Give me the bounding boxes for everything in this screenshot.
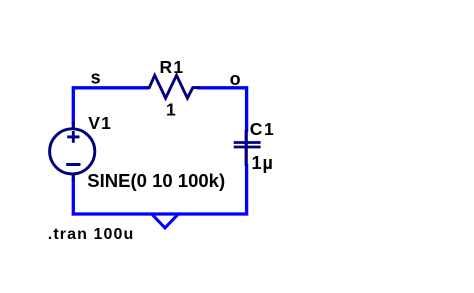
voltage source V1 [50,122,95,181]
svg-text:1µ: 1µ [252,153,274,173]
svg-text:.tran 100u: .tran 100u [48,226,135,243]
svg-text:R1: R1 [160,57,185,77]
wire right side below C1 [245,166,248,214]
wire node o: top-right L [199,88,247,131]
svg-text:o: o [230,69,241,89]
svg-text:V1: V1 [88,113,112,133]
wire bottom [73,212,246,215]
svg-text:1: 1 [166,100,176,120]
svg-text:C1: C1 [250,119,276,139]
svg-text:SINE(0 10 100k): SINE(0 10 100k) [87,170,225,191]
svg-text:s: s [91,68,101,88]
wire node s: top-left L [73,88,147,123]
capacitor C1 [234,130,261,166]
ground [153,216,177,228]
resistor R1 zigzag [148,75,199,98]
wire left side below V1 [72,180,75,214]
